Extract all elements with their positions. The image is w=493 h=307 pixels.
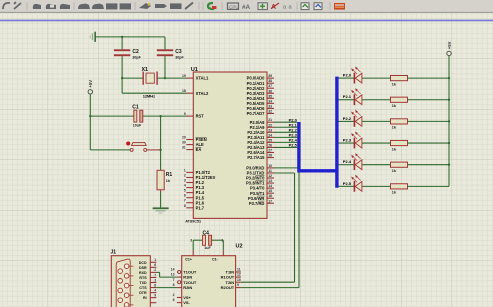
wire: XTAL2 row	[122, 92, 186, 94]
capacitor C3	[157, 49, 185, 60]
wire: LED row 3 LED to resistor	[362, 142, 391, 144]
LED D3	[351, 110, 362, 127]
svg-text:RI: RI	[143, 296, 147, 300]
wire: J1 RXD to U2 R1IN (Z)	[156, 271, 159, 273]
sheet top border line	[0, 20, 493, 22]
ground (below R1)	[153, 207, 169, 213]
svg-text:12MHz: 12MHz	[143, 93, 155, 98]
svg-text:8: 8	[173, 283, 175, 287]
U1 pin 4 P1.3	[184, 184, 205, 191]
wire: ground rail to C2/C3 tops	[95, 36, 165, 38]
wire: P2.1 pin to bus	[274, 126, 297, 128]
wire: button feed	[90, 149, 130, 151]
U1 pin 27 P2.6/A14	[247, 149, 274, 156]
wire: LED row 4 bus to LED	[339, 164, 355, 166]
J1 pin 9 RI	[143, 293, 156, 300]
svg-text:12: 12	[268, 174, 272, 178]
LED D2	[351, 88, 362, 105]
wire: C4 right to U2 pin 1	[212, 239, 224, 241]
U1 pin 24 P2.3/A11	[248, 133, 274, 140]
U1 pin 32 P0.7/AD7	[247, 109, 274, 116]
LED D5	[351, 153, 362, 170]
button red indicator dot	[126, 142, 130, 146]
svg-text:14: 14	[268, 184, 272, 188]
U1 pin 19 XTAL1	[182, 74, 209, 81]
U1 pin 11 P3.1/TXD	[247, 169, 274, 176]
svg-text:15: 15	[268, 189, 272, 193]
svg-text:C1-: C1-	[212, 257, 219, 261]
svg-text:C1: C1	[132, 104, 139, 110]
U1 pin 15 P3.5/T1	[250, 189, 274, 196]
wire: C4 left to U2 pin 3	[192, 240, 194, 251]
wire: LED row 3 resistor to +5V rail	[408, 142, 450, 144]
U1 pin 34 P0.5/AD5	[247, 99, 274, 106]
capacitor C4	[203, 230, 212, 249]
svg-text:1: 1	[154, 258, 156, 262]
U2 pin 2 VS+	[173, 293, 192, 300]
capacitor C1	[132, 104, 143, 127]
wire: R1 bottom to ground	[160, 190, 162, 192]
svg-text:+5V: +5V	[447, 41, 452, 49]
U1 pin 16 P3.6/WR	[248, 194, 274, 201]
svg-text:TXD: TXD	[139, 281, 147, 285]
svg-text:T2IN: T2IN	[226, 280, 235, 285]
svg-text:C2: C2	[132, 49, 139, 55]
U2 pin 7 T2OUT	[173, 278, 197, 285]
svg-text:VS-: VS-	[183, 300, 190, 305]
U1 pin 7 P1.6	[184, 199, 205, 206]
svg-text:EA: EA	[196, 147, 202, 152]
capacitor C2	[114, 49, 142, 60]
svg-text:C3: C3	[175, 49, 182, 55]
LED D4	[351, 132, 362, 149]
svg-text:14: 14	[171, 268, 175, 272]
svg-text:33: 33	[268, 104, 272, 108]
svg-text:22: 22	[268, 123, 272, 127]
wire: LED row 1 resistor to +5V rail	[408, 99, 450, 101]
wire: LED row 4 LED to resistor	[362, 164, 391, 166]
U1 pin 21 P2.0/A8	[250, 118, 274, 125]
svg-text:32: 32	[268, 109, 272, 113]
svg-text:U2: U2	[236, 244, 243, 250]
svg-text:10: 10	[237, 278, 241, 282]
U1 pin 29 PSEN	[182, 136, 207, 143]
U1 pin 2 P1.1/T2EX	[184, 174, 216, 181]
J1 hole pin 9	[118, 298, 123, 303]
svg-text:P2.2: P2.2	[343, 116, 352, 121]
wire: LED row 0 LED to resistor	[362, 77, 391, 79]
svg-text:10uF: 10uF	[133, 123, 142, 127]
svg-text:2: 2	[184, 174, 186, 178]
svg-text:3: 3	[184, 179, 186, 183]
svg-text:6: 6	[184, 194, 186, 198]
svg-text:39: 39	[268, 74, 272, 78]
U1 pin 36 P0.3/AD3	[247, 89, 274, 96]
svg-text:10: 10	[268, 164, 272, 168]
J1 pin 5 stub	[150, 302, 156, 304]
svg-text:9: 9	[184, 112, 186, 116]
svg-text:P1.7: P1.7	[196, 205, 205, 210]
wire: LED row 4 resistor to +5V rail	[408, 164, 450, 166]
svg-text:23: 23	[268, 128, 272, 132]
+5V terminal (right)	[447, 51, 451, 55]
U1 pin 9 RST	[184, 112, 204, 119]
U1 pin 31 EA	[182, 146, 201, 153]
svg-text:DTR: DTR	[139, 291, 147, 295]
svg-text:X1: X1	[142, 67, 149, 73]
U1 pin 18 XTAL2	[182, 89, 209, 96]
svg-text:9: 9	[237, 283, 239, 287]
junction	[448, 77, 450, 79]
junction	[448, 164, 450, 166]
wire: LED row 5 bus to LED	[339, 185, 355, 187]
wire: LED row 1 LED to resistor	[362, 99, 391, 101]
wire: RST row left of C1	[90, 115, 134, 117]
U1 pin 37 P0.2/AD2	[247, 84, 274, 91]
svg-text:AT89C51: AT89C51	[185, 219, 201, 223]
svg-text:16: 16	[268, 194, 272, 198]
svg-text:13: 13	[268, 179, 272, 183]
resistor row 5	[391, 184, 408, 195]
J1 pin 7 RTS	[139, 273, 156, 280]
svg-text:36: 36	[268, 89, 272, 93]
svg-text:RXD: RXD	[139, 271, 147, 275]
junction	[121, 77, 123, 79]
svg-text:R2IN: R2IN	[183, 285, 192, 290]
+5V terminal (left)	[88, 90, 92, 94]
wire: +5V drop to RST net (C1 left)	[89, 94, 91, 150]
U1 pin 30 ALE	[182, 141, 204, 148]
svg-text:4: 4	[184, 184, 186, 188]
J1 hole pin 8	[118, 288, 123, 293]
svg-text:24: 24	[268, 133, 272, 137]
svg-text:29: 29	[182, 136, 186, 140]
U1 pin 23 P2.2/A10	[247, 128, 274, 135]
svg-text:27: 27	[268, 149, 272, 153]
IC U2 MAX232	[182, 244, 243, 307]
svg-text:C1+: C1+	[185, 257, 192, 261]
J1 pin 1 DCD	[139, 258, 157, 265]
svg-text:12: 12	[237, 273, 241, 277]
wire: LED row 1 bus to LED	[339, 99, 355, 101]
svg-text:13: 13	[171, 273, 175, 277]
svg-text:P2.0: P2.0	[343, 73, 352, 78]
wire: RST vertical to button/R1 node	[160, 116, 162, 170]
J1 hole pin 2	[124, 274, 133, 279]
svg-text:25: 25	[268, 138, 272, 142]
junction	[159, 149, 161, 151]
wire: LED row 5 resistor to +5V rail	[408, 185, 450, 187]
U1 pin 12 P3.2/INT0	[246, 174, 274, 181]
U1 pin 10 P3.0/RXD	[246, 164, 274, 171]
U1 pin 26 P2.5/A13	[247, 143, 274, 150]
svg-text:26: 26	[268, 143, 272, 147]
svg-text:RST: RST	[196, 114, 205, 119]
wire: LED row 3 bus to LED	[339, 142, 355, 144]
svg-text:R1: R1	[166, 172, 173, 178]
svg-text:6: 6	[173, 298, 175, 302]
U1 pin 35 P0.4/AD4	[247, 94, 274, 101]
svg-text:21: 21	[268, 118, 272, 122]
wire: J1 CTS row to U2 R2IN	[156, 287, 177, 289]
U1 pin 8 P1.7	[184, 204, 205, 211]
wire: P2.2 pin to bus	[274, 131, 297, 133]
svg-text:6: 6	[154, 263, 156, 267]
junction	[448, 120, 450, 122]
svg-text:1uF: 1uF	[204, 246, 211, 250]
U2 pin 13 R1IN	[171, 273, 193, 280]
U2 pin 10 T2IN	[226, 278, 241, 285]
crystal X1	[142, 67, 158, 85]
svg-text:18: 18	[182, 89, 186, 93]
microcontroller U1 AT89C51	[185, 67, 267, 223]
svg-text:9: 9	[154, 293, 156, 297]
svg-text:2: 2	[154, 268, 156, 272]
svg-text:T2OUT: T2OUT	[183, 280, 197, 285]
svg-text:19: 19	[182, 74, 186, 78]
U1 pin 5 P1.4	[184, 189, 205, 196]
svg-text:38: 38	[268, 79, 272, 83]
U1 pin 1 P1.0/T2	[184, 168, 211, 175]
U1 pin 3 P1.2	[184, 179, 205, 186]
U2 pin 12 R1OUT	[221, 273, 241, 280]
wire: LED row 2 LED to resistor	[362, 120, 391, 122]
J1 pin 3 TXD	[139, 278, 156, 285]
U1 pin 14 P3.4/T0	[250, 184, 274, 191]
wire: P2.4 pin to bus	[274, 141, 297, 143]
resistor row 2	[391, 119, 408, 130]
junction	[448, 142, 450, 144]
LED D6	[351, 175, 362, 192]
junction	[448, 99, 450, 101]
U2 pin 14 T1OUT	[171, 268, 197, 275]
svg-text:1: 1	[184, 168, 186, 172]
svg-text:P2.4: P2.4	[343, 159, 352, 164]
J1 pin 6 DSR	[139, 263, 156, 270]
U2 pin 9 R2OUT	[221, 283, 241, 290]
svg-text:4: 4	[154, 288, 156, 292]
toolbar background	[0, 0, 493, 13]
U2 pin 11 T1IN	[226, 268, 241, 275]
svg-text:P3.7/RD: P3.7/RD	[249, 201, 265, 206]
wire: P2.5 pin to bus	[274, 146, 297, 148]
svg-text:2: 2	[173, 293, 175, 297]
svg-text:P2.5: P2.5	[343, 181, 352, 186]
svg-text:7: 7	[184, 199, 186, 203]
svg-text:17: 17	[268, 199, 272, 203]
svg-text:30pF: 30pF	[175, 56, 184, 60]
svg-text:35: 35	[268, 94, 272, 98]
push button	[130, 142, 147, 151]
svg-text:5: 5	[184, 189, 186, 193]
svg-text:DSR: DSR	[139, 266, 147, 270]
resistor row 0	[391, 76, 408, 87]
svg-text:J1: J1	[111, 250, 117, 256]
U1 pin 33 P0.6/AD6	[247, 104, 274, 111]
wire: LED row 0 bus to LED	[339, 77, 355, 79]
wire: C2 bottom lead down to XTAL2 row	[121, 56, 123, 93]
resistor row 4	[391, 162, 408, 173]
svg-text:XTAL2: XTAL2	[196, 91, 209, 96]
wire: C3 top lead	[164, 37, 166, 49]
svg-text:P2.1: P2.1	[343, 94, 352, 99]
svg-text:P0.7/AD7: P0.7/AD7	[247, 111, 265, 116]
J1 pin 2 RXD	[139, 268, 156, 275]
U1 pin 38 P0.1/AD1	[247, 79, 274, 86]
svg-text:XTAL1: XTAL1	[196, 76, 209, 81]
J1 hole pin 7	[118, 279, 123, 284]
svg-text:30pF: 30pF	[132, 56, 141, 60]
J1 hole pin 6	[118, 269, 123, 274]
svg-text:U1: U1	[191, 67, 198, 73]
J1 hole pin 3	[124, 283, 133, 288]
wire: C2 top lead	[121, 37, 123, 49]
svg-text:7: 7	[154, 273, 156, 277]
wire: LED row 2 bus to LED	[339, 120, 355, 122]
wire: button to R1 column (red)	[147, 149, 161, 151]
wire: P3.0/RXD to R2OUT	[274, 167, 299, 169]
resistor R1	[157, 170, 172, 190]
U1 pin 28 P2.7/A15	[247, 154, 274, 161]
wire: +5V right vertical	[448, 56, 450, 187]
svg-text:3: 3	[190, 239, 192, 243]
svg-text:3: 3	[154, 278, 156, 282]
svg-text:11: 11	[237, 268, 241, 272]
wire: C3 bottom lead to XTAL1 row	[164, 56, 166, 78]
wire: crystal right to XTAL1 pin	[158, 77, 187, 79]
svg-text:P2.3: P2.3	[343, 137, 352, 142]
wire: LED row 2 resistor to +5V rail	[408, 120, 450, 122]
svg-text:P2.5: P2.5	[289, 143, 298, 148]
junction	[164, 77, 166, 79]
U2 pin 6 VS-	[173, 298, 191, 305]
J1 hole pin 1	[124, 264, 133, 269]
junction	[121, 36, 123, 38]
svg-text:P2.7/A15: P2.7/A15	[247, 155, 265, 160]
wire: P2.3 pin to bus	[274, 136, 297, 138]
U1 pin 25 P2.4/A12	[247, 138, 274, 145]
svg-text:CPU: CPU	[229, 4, 239, 9]
junction	[89, 115, 91, 117]
bus: LED side vertical	[335, 77, 338, 188]
svg-text:7: 7	[173, 278, 175, 282]
U2 pin 8 R2IN	[173, 283, 193, 290]
ground (top-left, rotated)	[90, 32, 96, 42]
svg-text:31: 31	[182, 146, 186, 150]
resistor row 3	[391, 140, 408, 151]
J1 hole pin 5	[124, 303, 133, 307]
toolbar icons	[3, 2, 345, 11]
svg-text:28: 28	[268, 154, 272, 158]
svg-text:11: 11	[268, 169, 272, 173]
svg-text:8: 8	[184, 204, 186, 208]
U2 top pin 1	[222, 251, 224, 256]
U2 top pin 3	[192, 251, 194, 256]
svg-text:DCD: DCD	[139, 261, 147, 265]
svg-text:CTS: CTS	[139, 286, 147, 290]
J1 pin 4 DTR	[139, 288, 156, 295]
svg-text:#A: #A	[242, 4, 251, 11]
svg-text:1: 1	[221, 239, 223, 243]
wire: LED row 5 LED to resistor	[362, 185, 391, 187]
svg-text:37: 37	[268, 84, 272, 88]
U1 pin 39 P0.0/AD0	[247, 74, 274, 81]
svg-text:30: 30	[182, 141, 186, 145]
resistor row 1	[391, 97, 408, 108]
svg-text:R2OUT: R2OUT	[221, 285, 235, 290]
wire: P2.0 pin to bus	[274, 121, 297, 123]
bus: P2 collector vertical + horizontal	[299, 122, 337, 171]
wire: branch to crystal left	[122, 77, 143, 79]
LED D1	[351, 67, 362, 84]
U1 pin 13 P3.3/INT1	[246, 179, 274, 186]
junction	[159, 115, 161, 117]
svg-text:+5V: +5V	[88, 80, 93, 88]
J1 hole pin 4	[124, 293, 133, 298]
wire: RST row right of C1	[143, 115, 187, 117]
wire: P3.1/TXD to T2IN	[274, 172, 295, 174]
wire: LED row 0 resistor to +5V rail	[408, 77, 450, 79]
svg-text:RTS: RTS	[139, 276, 147, 280]
U1 pin 6 P1.5	[184, 194, 205, 201]
connector J1 body	[111, 250, 151, 307]
J1 pin 8 CTS	[139, 283, 156, 290]
svg-text:8: 8	[154, 283, 156, 287]
U1 pin 22 P2.1/A9	[250, 123, 274, 130]
svg-text:C4: C4	[203, 230, 210, 236]
U1 pin 17 P3.7/RD	[249, 199, 274, 206]
svg-text:34: 34	[268, 99, 272, 103]
